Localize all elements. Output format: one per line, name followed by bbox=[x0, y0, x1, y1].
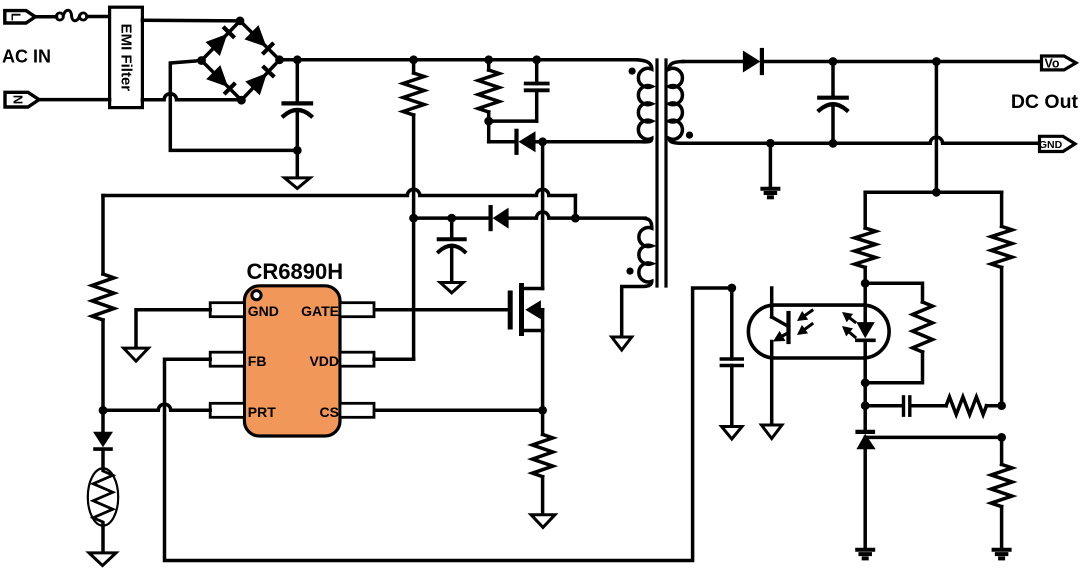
svg-text:CS: CS bbox=[320, 404, 339, 420]
svg-text:AC IN: AC IN bbox=[2, 47, 51, 67]
svg-text:L: L bbox=[9, 13, 24, 21]
svg-text:N: N bbox=[11, 95, 26, 104]
svg-text:EMI Filter: EMI Filter bbox=[118, 24, 135, 92]
svg-text:GND: GND bbox=[248, 303, 279, 319]
svg-text:GND: GND bbox=[1039, 139, 1063, 151]
svg-text:VDD: VDD bbox=[309, 353, 339, 369]
svg-text:DC Out: DC Out bbox=[1011, 91, 1079, 113]
svg-text:CR6890H: CR6890H bbox=[247, 259, 344, 284]
svg-text:Vo: Vo bbox=[1044, 57, 1059, 71]
svg-text:PRT: PRT bbox=[248, 404, 276, 420]
svg-text:GATE: GATE bbox=[301, 303, 339, 319]
svg-text:FB: FB bbox=[248, 353, 267, 369]
